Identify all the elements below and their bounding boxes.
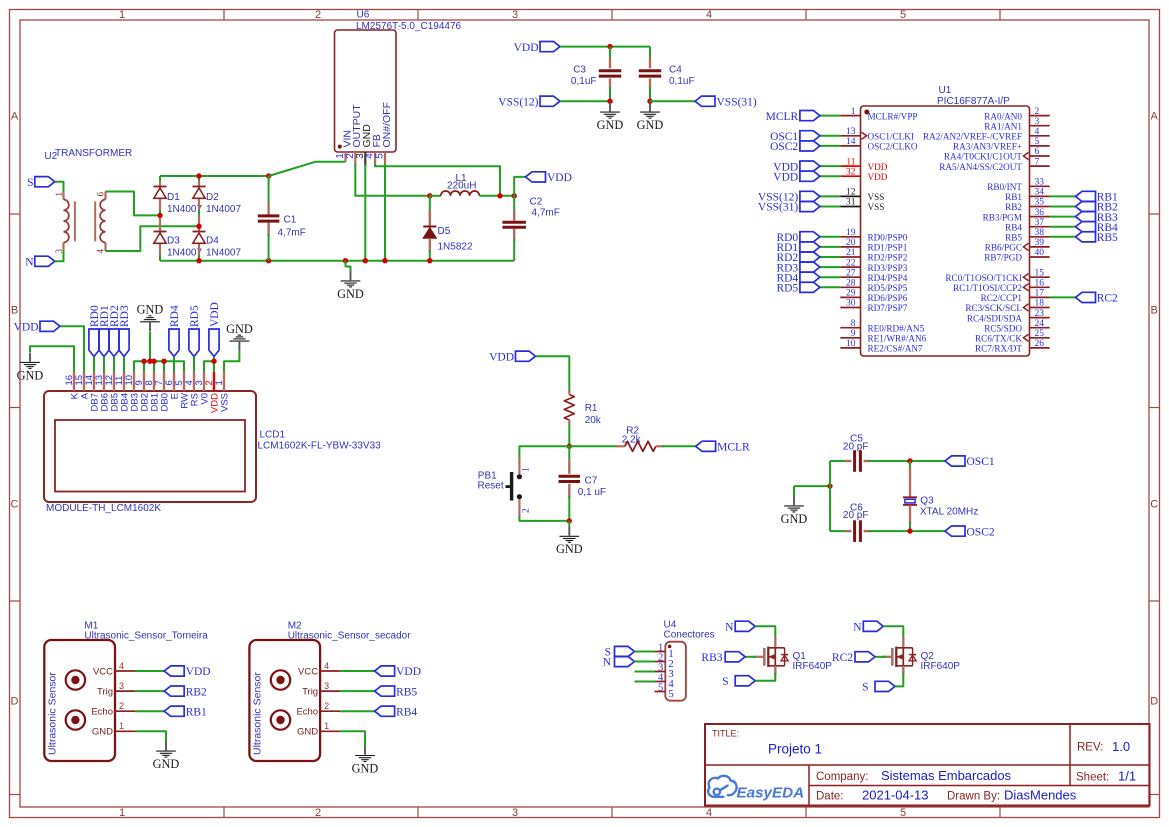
svg-text:33: 33 [1035,178,1045,188]
svg-text:0,1uF: 0,1uF [669,76,695,87]
wire S to Q1 source [755,673,775,681]
U1 pin 3 RA1/AN1 [1030,125,1050,127]
U4 pin 1 [655,651,666,653]
pushbutton PB1 Reset [518,457,520,474]
svg-text:38: 38 [1035,228,1045,238]
net flag RD4 to E [169,329,179,357]
junction reset node [567,444,572,449]
svg-text:OSC2: OSC2 [967,526,995,538]
svg-text:VSS: VSS [868,202,885,212]
U1 pin 36 RB3/PGM [1030,216,1050,218]
wire from U1 pin 37 [1050,226,1076,228]
module M1 box [44,640,115,761]
svg-text:RA2/AN2/VREF-/CVREF: RA2/AN2/VREF-/CVREF [923,132,1022,142]
ground flipped above LCD data pins [149,332,151,361]
svg-text:N: N [853,622,862,634]
svg-text:N: N [25,257,34,269]
svg-text:GND: GND [226,322,253,336]
svg-text:MCLR: MCLR [717,442,750,454]
svg-text:29: 29 [846,289,856,299]
junction D5 bottom [427,258,432,263]
net flag RD2 [800,252,820,262]
svg-text:RA4/T0CKI/C1OUT: RA4/T0CKI/C1OUT [944,152,1022,162]
svg-text:5: 5 [900,807,906,819]
svg-text:RB5: RB5 [396,686,417,698]
wire U6 GND down [364,164,366,261]
wire S to primary [55,182,64,194]
svg-text:3: 3 [119,681,124,691]
svg-text:U6: U6 [357,10,370,21]
U1 pin 27 RD4/PSP4 [840,276,860,278]
wire RD1 [103,357,105,373]
svg-text:26: 26 [1035,339,1045,349]
svg-text:RB5: RB5 [1005,233,1022,243]
junction switch node [427,193,432,198]
junction bottom rail gnd tap [343,258,348,263]
svg-text:0,1 uF: 0,1 uF [578,487,606,498]
svg-text:S: S [27,177,33,189]
svg-text:VSS(31): VSS(31) [758,202,798,214]
wire gate Q1 [745,656,756,658]
net flag OSC2 [945,526,965,536]
wire S to U4 pin1 [635,651,656,653]
U1 pin 24 RC5/SDO [1030,327,1050,329]
svg-text:4: 4 [119,661,124,671]
wire RD3 [123,357,125,373]
svg-text:19: 19 [846,228,856,238]
wire RD2 [113,357,115,373]
wire gate Q2 [875,656,886,658]
U1 pin 10 RE2/CS#/AN7 [840,347,860,349]
U1 pin13 clock chevron [862,132,867,139]
U1 pin 23 RC4/SDI/SDA [1030,317,1050,319]
svg-text:RC5/SDO: RC5/SDO [984,323,1022,333]
svg-text:4: 4 [1035,127,1040,137]
svg-text:OSC1: OSC1 [967,456,995,468]
svg-text:Ultrasonic Sensor: Ultrasonic Sensor [46,672,58,755]
svg-text:20 pF: 20 pF [843,510,869,521]
svg-text:37: 37 [1035,218,1045,228]
wire bridge to VIN [269,162,346,176]
svg-text:TRANSFORMER: TRANSFORMER [55,148,132,159]
svg-text:RC1/T1OSI/CCP2: RC1/T1OSI/CCP2 [953,283,1022,293]
svg-text:2,2k: 2,2k [622,434,642,445]
svg-text:20: 20 [846,238,856,248]
svg-text:RB5: RB5 [1097,232,1118,244]
gate pin Q2 [883,656,892,658]
svg-text:21: 21 [846,248,856,258]
svg-text:3: 3 [1035,117,1040,127]
svg-text:RC2: RC2 [1097,293,1118,305]
ground reset [568,521,570,527]
net flag RB1 [1076,191,1096,201]
svg-text:RB1: RB1 [186,706,207,718]
U1 pin 7 RA5/AN4/SS/C2OUT [1030,165,1050,167]
net flag RD4 [800,272,820,282]
U1 pin 4 RA2/AN2/VREF-/CVREF [1030,135,1050,137]
svg-text:11: 11 [846,157,855,167]
svg-text:GND: GND [637,118,664,132]
svg-text:12: 12 [846,188,856,198]
wire RD0 [93,357,95,373]
U1 pin 31 VSS [840,206,860,208]
svg-text:RB1: RB1 [1005,192,1022,202]
gate pin Q1 [753,656,764,658]
net flag S [35,177,55,187]
svg-text:RE0/RD#/AN5: RE0/RD#/AN5 [868,323,925,333]
wire secondary pin4 to bridge [106,226,200,251]
LCD1 pin 10 DB3 [133,372,135,391]
net flag RD5 to RS [189,329,199,357]
svg-text:RD5: RD5 [776,283,798,295]
svg-text:VDD: VDD [186,666,211,678]
net flag RB5 [375,686,395,696]
svg-text:4: 4 [706,807,712,819]
net flag RC2 [1076,292,1096,302]
net flag RD0 to DB7 [89,329,99,357]
svg-text:15: 15 [1035,268,1045,278]
junction DB0 [161,359,166,364]
net flag VDD [164,666,184,676]
wire to U1 pin 12 [820,195,840,197]
wire C2 to VDD flag [514,177,525,196]
svg-text:C: C [1150,499,1158,511]
svg-text:GND: GND [153,757,180,771]
U1 pin 39 RB6/PGC [1030,246,1050,248]
U4 pin 3 [655,671,666,673]
U1 pin 14 OSC2/CLKO [840,145,860,147]
module M2 box [249,640,320,761]
svg-text:22: 22 [846,258,856,268]
svg-text:2: 2 [522,508,532,513]
net flag OSC1 [945,456,965,466]
net flag RD1 [800,242,820,252]
svg-text:RA1/AN1: RA1/AN1 [984,121,1022,131]
net flag VDD output [526,172,546,182]
junction bottom rail C1 [266,258,271,263]
svg-text:D: D [1150,696,1158,708]
svg-text:6: 6 [95,192,105,197]
wire VDD to R1 [536,356,570,392]
net flag RB2 [164,686,184,696]
svg-text:1: 1 [119,9,125,21]
svg-text:1N4007: 1N4007 [167,204,202,215]
junction FB node [497,193,502,198]
svg-text:RA0/AN0: RA0/AN0 [984,111,1022,121]
wire VSS(12) to C3 [560,100,610,102]
svg-text:GND: GND [337,287,364,301]
junction ON/OFF rail [382,258,387,263]
junction top rail D2 [196,173,201,178]
wire FB to L1 out [375,164,500,196]
svg-text:27: 27 [846,268,856,278]
wire gnd to caps [794,485,830,487]
junction DB1 [151,359,156,364]
ground under C3 [609,102,611,111]
svg-text:R1: R1 [585,403,598,414]
svg-text:N: N [603,657,612,669]
junction gnd stem [147,359,152,364]
svg-text:VDD: VDD [868,172,888,182]
wire VSS pin1 to ground [224,351,239,372]
transistor Q1 IRF640P [774,637,776,648]
svg-text:VDD: VDD [396,666,421,678]
svg-text:1N4007: 1N4007 [167,248,202,259]
svg-text:OSC2: OSC2 [770,141,798,153]
svg-text:RD4: RD4 [169,305,181,327]
wire to U1 pin 1 [820,115,840,117]
wire from U1 pin 17 [1050,296,1076,298]
svg-text:Date:: Date: [816,791,844,803]
U1 pin 30 RD7/PSP7 [840,307,860,309]
wire to U1 pin 14 [820,145,840,147]
svg-text:Trig: Trig [97,687,113,698]
junction VDD V0 [211,359,216,364]
U1 pin 18 RC3/SCK/SCL [1030,307,1050,309]
M2 pin 4 VCC [320,670,340,672]
net flag gate Q2 [855,652,875,662]
svg-text:1N5822: 1N5822 [438,242,473,253]
svg-text:VDD: VDD [14,322,39,334]
svg-text:RD6/PSP6: RD6/PSP6 [868,293,908,303]
net flag VDD [375,666,395,676]
wire from U1 pin 36 [1050,216,1076,218]
LCD1 pin 8 DB1 [153,372,155,391]
M1 pin 3 Trig [115,690,135,692]
primary coil [62,192,64,200]
svg-text:14: 14 [846,137,856,147]
svg-text:1/1: 1/1 [1118,769,1136,784]
resistor R2 2,2k [616,445,625,447]
net flag OSC1 [800,131,820,141]
junction crystal gnd [827,483,832,488]
svg-text:EasyEDA: EasyEDA [737,784,805,801]
junction bridge mid right [196,224,201,229]
svg-text:2: 2 [315,807,321,819]
svg-text:RC6/TX/CK: RC6/TX/CK [975,334,1022,344]
U1 pin 35 RB2 [1030,206,1050,208]
svg-text:GND: GND [597,118,624,132]
net flag S Q2 [875,681,895,691]
M2 transducer bottom [271,710,290,729]
svg-text:LCD1: LCD1 [260,430,286,441]
junction gnd node [567,518,572,523]
wire M1 Echo [135,710,164,712]
wire RD4 [173,357,175,373]
svg-text:3: 3 [512,807,518,819]
ground flipped for LCD VSS [238,342,240,351]
wire bridge bottom rail [160,260,514,262]
secondary coil [104,192,106,200]
LCD1 pin 2 VDD [213,372,215,391]
ground crystal [793,486,795,496]
U1 pin 5 RA3/AN3/VREF+ [1030,145,1050,147]
svg-text:MCLR#/VPP: MCLR#/VPP [868,111,918,121]
U4 pin 2 [655,661,666,663]
U1 pin 9 RE1/WR#/AN6 [840,337,860,339]
resistor R1 20k [568,390,570,395]
U1 pin 17 RC2/CCP1 [1030,296,1050,298]
svg-text:1N4007: 1N4007 [206,248,241,259]
svg-text:IRF640P: IRF640P [793,661,833,672]
LCD1 pin 9 DB2 [143,372,145,391]
wire VDD rail [560,46,650,48]
net flag RD1 to DB6 [99,329,109,357]
svg-text:C: C [11,499,19,511]
svg-text:OSC2/CLKO: OSC2/CLKO [868,142,918,152]
LCD1 pin 11 DB4 [123,372,125,391]
U6 pin 2 OUTPUT [354,152,356,166]
svg-text:40: 40 [1035,248,1045,258]
svg-text:Trig: Trig [302,687,318,698]
svg-text:TITLE:: TITLE: [712,729,739,739]
LCD1 pin 15 A [83,372,85,391]
wire M2 GND [340,731,365,745]
svg-text:1N4007: 1N4007 [206,204,241,215]
wire to U1 pin 32 [820,175,840,177]
net flag RB1 [164,706,184,716]
capacitor C7 0,1uF [568,446,570,462]
wire stub U4 pin3 [635,671,656,673]
svg-text:1: 1 [119,807,125,819]
U6 pin 3 GND [364,152,366,166]
U1 pin 1 MCLR#/VPP [840,115,860,117]
net flag RB5 [1076,232,1096,242]
svg-text:VDD: VDD [547,172,572,184]
diode D5 1N5822 [429,196,431,212]
net flag VDD [800,171,820,181]
wire node to R2 [569,445,618,447]
svg-text:VDD: VDD [868,162,888,172]
junction OSC2 node [907,528,912,533]
capacitor C6 20pF [830,530,847,532]
svg-text:VDD: VDD [514,42,539,54]
wire N to Q2 drain [883,626,903,639]
net flag OSC2 [800,141,820,151]
svg-text:28: 28 [846,279,856,289]
svg-text:ON#/OFF: ON#/OFF [381,102,393,148]
U1 pin 8 RE0/RD#/AN5 [840,327,860,329]
svg-text:5: 5 [668,688,674,700]
svg-text:25: 25 [1035,329,1045,339]
U6 pin 5 ON#/OFF [384,152,386,166]
svg-text:Company:: Company: [816,771,868,783]
svg-text:23: 23 [1035,309,1045,319]
net flag N [35,256,55,266]
U1 pin 16 RC1/T1OSI/CCP2 [1030,286,1050,288]
svg-text:RA3/AN3/VREF+: RA3/AN3/VREF+ [953,142,1022,152]
M2 transducer top [271,670,290,689]
svg-text:36: 36 [1035,208,1045,218]
svg-text:B: B [11,305,18,317]
svg-text:6: 6 [1035,147,1040,157]
U1 pin 12 VSS [840,195,860,197]
U6 pin 4 FB [374,152,376,166]
svg-text:RD3: RD3 [119,305,131,327]
svg-text:RD5: RD5 [189,305,201,327]
svg-text:RD4/PSP4: RD4/PSP4 [868,273,908,283]
U1 pin 20 RD1/PSP1 [840,246,860,248]
svg-text:RC4/SDI/SDA: RC4/SDI/SDA [967,313,1023,323]
svg-text:2: 2 [1035,107,1040,117]
svg-text:D4: D4 [206,236,219,247]
svg-text:RB6/PGC: RB6/PGC [985,243,1022,253]
svg-text:VSS: VSS [220,393,231,412]
svg-text:Drawn By:: Drawn By: [947,791,1000,803]
svg-text:RD3/PSP3: RD3/PSP3 [868,263,908,273]
svg-text:RB3: RB3 [701,652,722,664]
junction bottom rail D4 [196,258,201,263]
capacitor C5 20pF [830,460,847,462]
svg-text:D2: D2 [206,192,219,203]
svg-text:RD7/PSP7: RD7/PSP7 [868,303,908,313]
net flag RB3 [1076,212,1096,222]
net flag VDD vertical [209,329,219,357]
U1 pin 13 OSC1/CLKI [840,135,860,137]
net flag VSS(31) [800,201,820,211]
ground under C4 [649,102,651,111]
wire VDD to pin15 A [60,326,84,372]
U6 pin 1 VIN [344,152,346,162]
svg-text:2021-04-13: 2021-04-13 [862,788,929,803]
svg-text:3: 3 [324,681,329,691]
net flag RB4 [375,706,395,716]
U4 pin 4 [655,681,666,683]
wire bridge top rail [160,175,269,177]
svg-text:16: 16 [1035,279,1045,289]
wire secondary pin6 to bridge [106,192,161,216]
wire V0 to VDD [204,361,214,372]
svg-text:5: 5 [658,682,663,693]
svg-text:3: 3 [512,9,518,21]
U1 pin 37 RB4 [1030,226,1050,228]
U1 pin 15 RC0/T1OSO/T1CKI [1030,276,1050,278]
junction C3 bottom [607,99,612,104]
wire M1 Trig [135,690,164,692]
U1 pin 25 RC6/TX/CK [1030,337,1050,339]
wire cap bus [829,461,831,531]
svg-text:31: 31 [846,198,856,208]
wire VDD pin2 [213,357,215,373]
svg-text:GND: GND [92,727,113,738]
net flag N Q2 [863,621,883,631]
crystal Q3 XTAL 20MHz [909,461,911,470]
svg-text:Reset: Reset [478,481,504,492]
U1 pin 19 RD0/PSP0 [840,236,860,238]
diode D1 1N4007 [154,186,167,188]
svg-text:RC7/RX/DT: RC7/RX/DT [975,344,1022,354]
svg-text:IRF640P: IRF640P [921,661,961,672]
svg-text:Ultrasonic Sensor: Ultrasonic Sensor [251,672,263,755]
LCD1 pin 1 VSS [223,372,225,391]
junction C4 bottom [647,99,652,104]
svg-text:Conectores: Conectores [664,630,715,641]
net flag S Q1 [735,676,755,686]
junction bridge mid left [157,213,162,218]
svg-text:D3: D3 [167,236,180,247]
U1 pin 34 RB1 [1030,195,1050,197]
svg-text:1: 1 [54,192,64,197]
svg-text:D5: D5 [438,226,451,237]
svg-text:DiasMendes: DiasMendes [1004,788,1077,803]
ground M1 [165,741,167,750]
svg-text:GND: GND [556,542,583,556]
wire N to primary [55,249,64,261]
M2 pin 3 Trig [320,690,340,692]
svg-text:RB2: RB2 [1005,202,1022,212]
svg-text:32: 32 [846,167,856,177]
wire stub U4 pin4 [635,681,656,683]
